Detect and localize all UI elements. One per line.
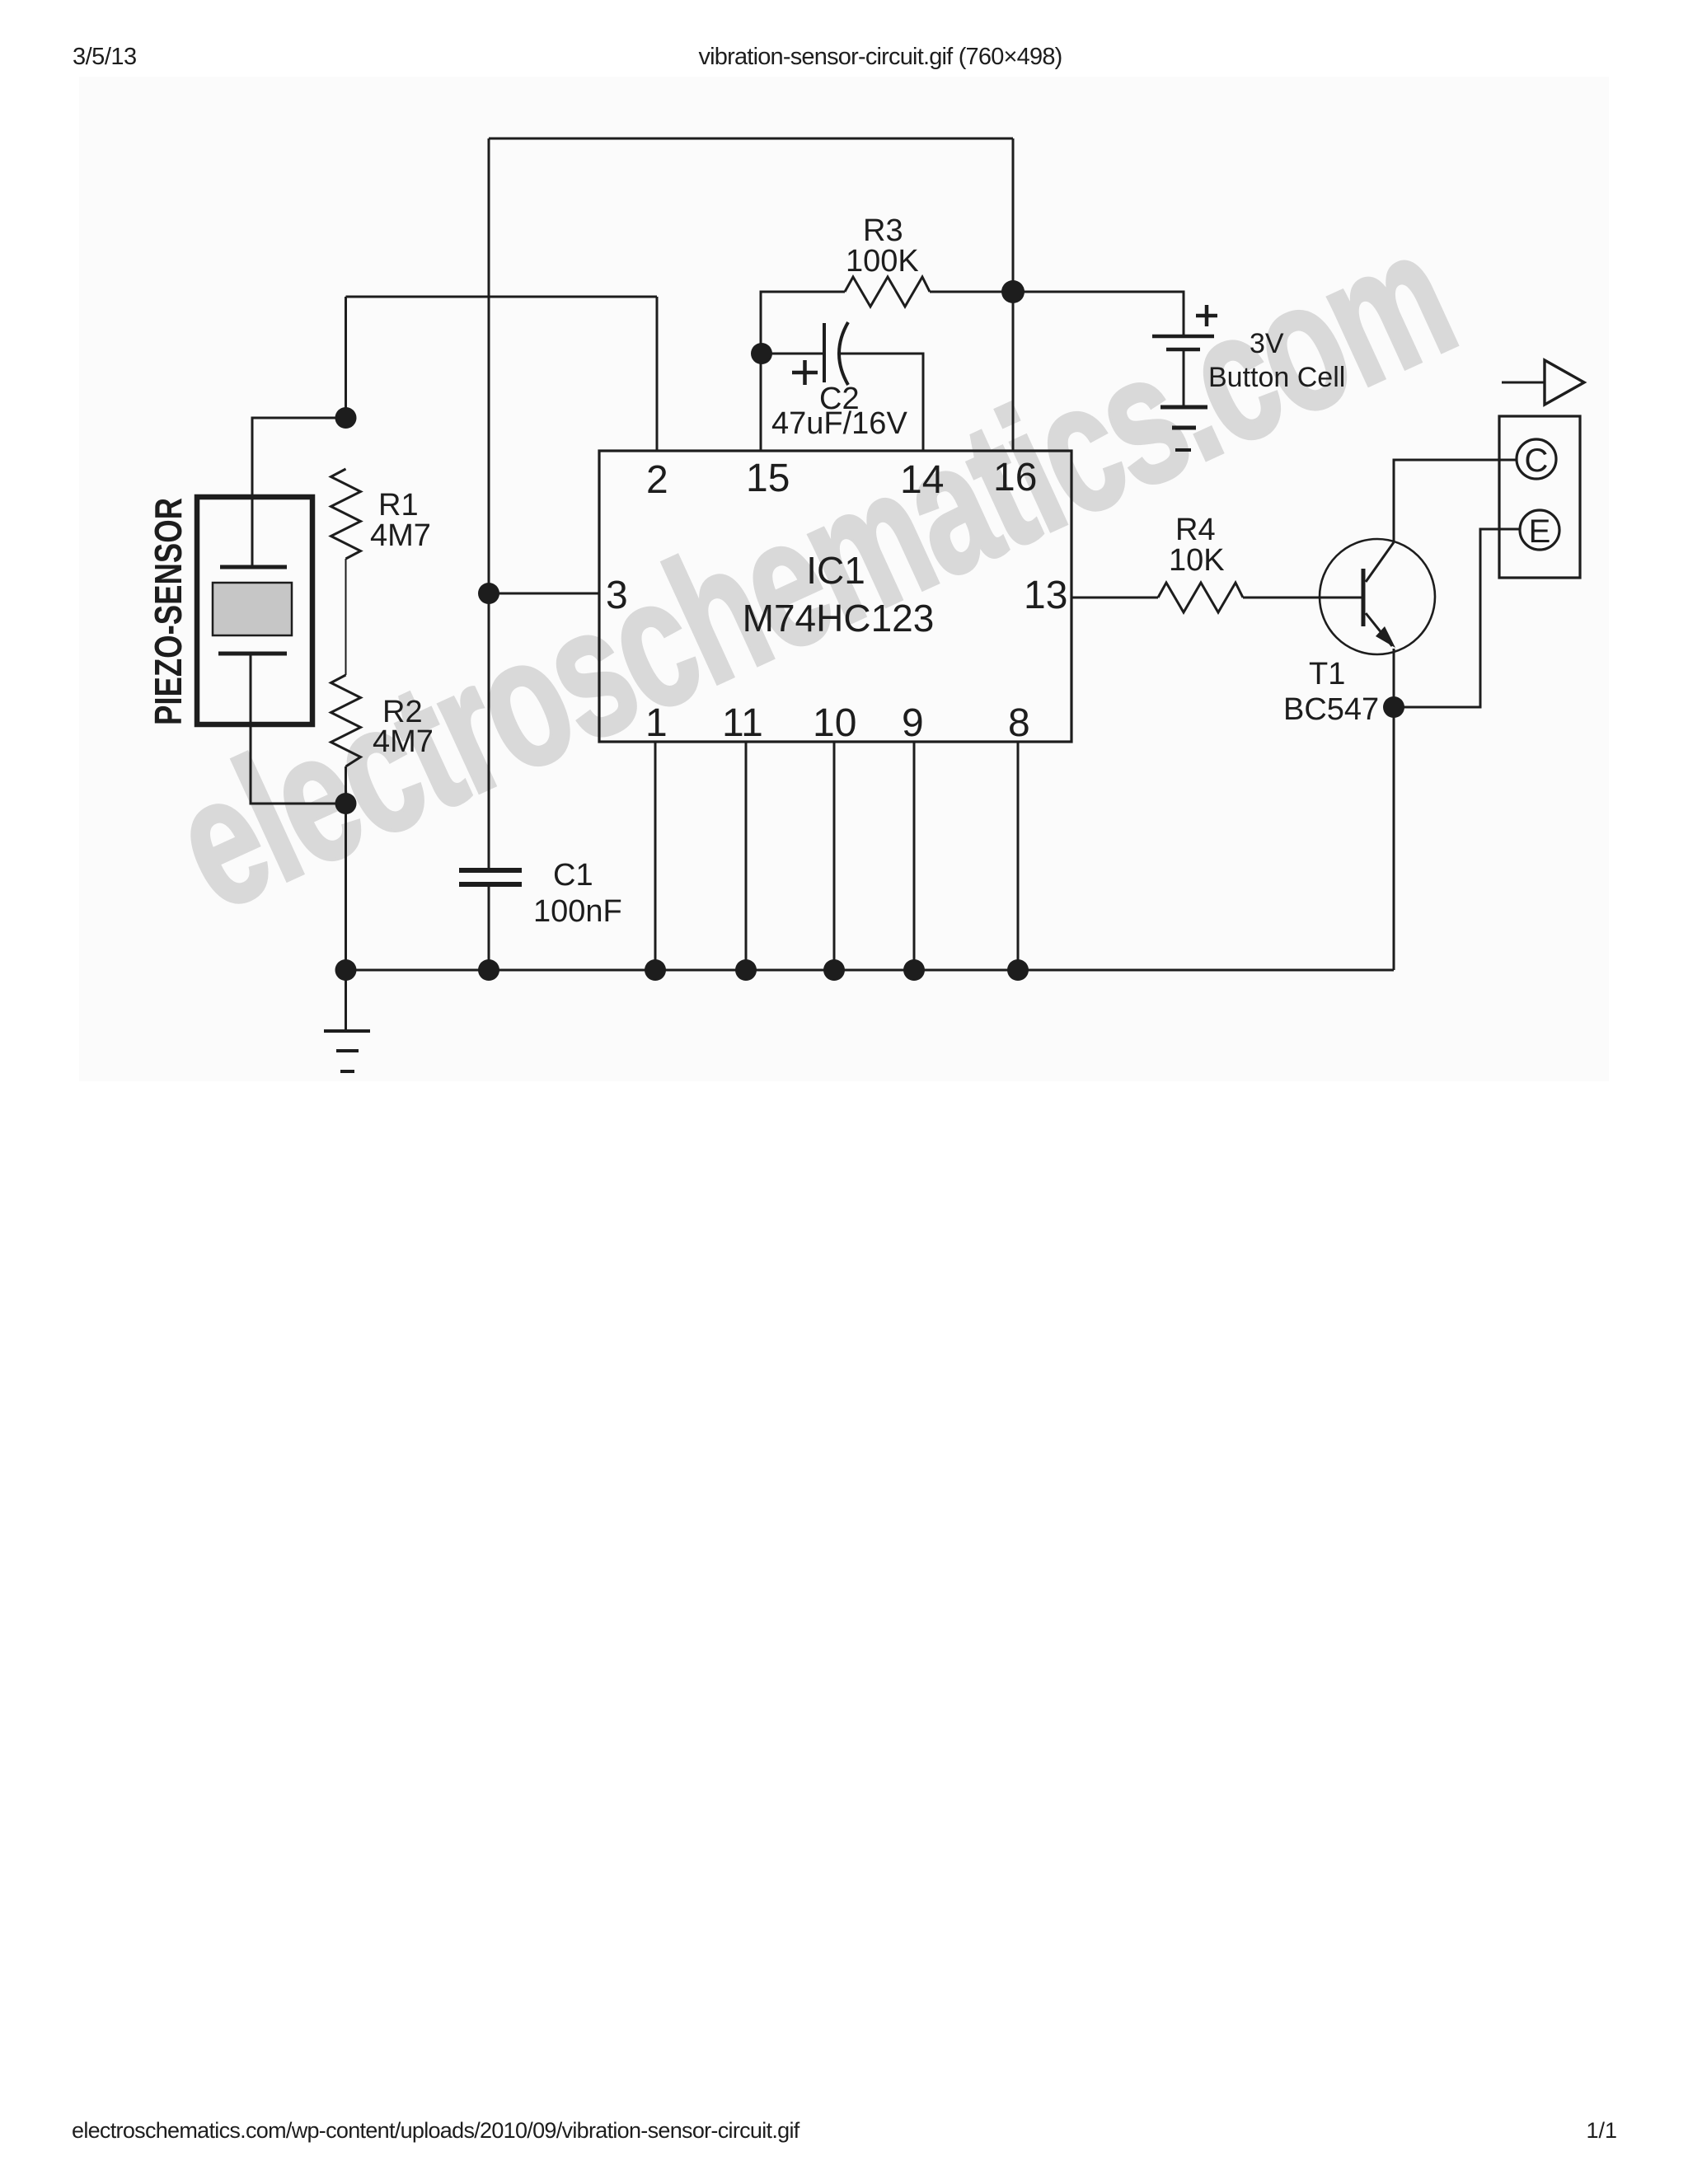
svg-text:3V: 3V xyxy=(1250,328,1284,359)
junction node A (R1 top / piezo top) xyxy=(335,407,357,429)
svg-text:11: 11 xyxy=(722,701,763,745)
wire left vertical from top wire down to C1 xyxy=(488,138,490,868)
junction rail at C1 xyxy=(478,959,499,981)
wire C2 left lead xyxy=(762,353,824,355)
wire left vertical node B to rail xyxy=(345,804,347,970)
wire battery top lead xyxy=(1013,292,1184,335)
svg-text:9: 9 xyxy=(902,701,924,745)
wire emitter down to rail xyxy=(1393,649,1395,970)
svg-text:10K: 10K xyxy=(1169,543,1225,578)
svg-text:BC547: BC547 xyxy=(1283,692,1379,727)
wire R4 to transistor base xyxy=(1243,597,1363,599)
junction rail pin 8 xyxy=(1007,959,1029,981)
capacitor C2 xyxy=(823,323,826,382)
svg-text:E: E xyxy=(1529,513,1551,550)
arrow symbol xyxy=(1545,360,1584,405)
wire emitter node to E terminal xyxy=(1394,529,1521,707)
wire node A to piezo top xyxy=(252,418,346,567)
svg-text:C1: C1 xyxy=(553,858,593,893)
svg-text:1/1: 1/1 xyxy=(1586,2118,1617,2143)
svg-text:4M7: 4M7 xyxy=(370,518,431,553)
wire pin 11 riser xyxy=(745,742,748,970)
junction rail at left vertical xyxy=(335,959,357,981)
piezo sensor box xyxy=(197,497,312,724)
svg-text:IC1: IC1 xyxy=(806,549,865,592)
junction rail pin 9 xyxy=(903,959,925,981)
IC U1 box xyxy=(599,451,1071,742)
ground rail xyxy=(346,969,1395,972)
wire top horizontal xyxy=(489,138,1013,140)
wire piezo bottom to node B xyxy=(251,654,346,804)
svg-text:15: 15 xyxy=(746,457,790,500)
junction node pin3 xyxy=(478,583,499,604)
svg-text:R3: R3 xyxy=(863,213,903,248)
svg-text:3: 3 xyxy=(606,574,628,617)
terminal E xyxy=(1520,510,1559,550)
svg-text:T1: T1 xyxy=(1309,657,1345,691)
svg-text:4M7: 4M7 xyxy=(373,724,434,759)
terminal C xyxy=(1517,439,1556,479)
piezo crystal gray slab xyxy=(213,583,292,635)
wire ground stub xyxy=(345,970,347,1031)
svg-text:electroschematics.com/wp-conte: electroschematics.com/wp-content/uploads… xyxy=(72,2118,800,2143)
resistor R3 xyxy=(845,277,930,307)
watermark electroschematics.com xyxy=(147,191,1479,949)
svg-text:vibration-sensor-circuit.gif (: vibration-sensor-circuit.gif (760×498) xyxy=(698,44,1062,70)
resistor R1 xyxy=(331,469,361,559)
wire pin 13 to R4 xyxy=(1071,597,1158,599)
svg-text:16: 16 xyxy=(993,456,1037,499)
junction rail pin 11 xyxy=(735,959,757,981)
svg-text:Button Cell: Button Cell xyxy=(1208,362,1345,393)
wire collector up and to C terminal xyxy=(1394,460,1517,542)
C2 plus sign xyxy=(792,360,818,385)
svg-text:8: 8 xyxy=(1008,701,1030,745)
svg-text:100nF: 100nF xyxy=(533,894,622,929)
transistor Q1 BC547 xyxy=(1320,539,1435,654)
svg-text:3/5/13: 3/5/13 xyxy=(73,44,137,70)
wire R3 right to node C xyxy=(930,291,1013,293)
battery B1 3V button cell xyxy=(1152,305,1217,450)
svg-text:47uF/16V: 47uF/16V xyxy=(771,406,907,441)
wire C2 right lead to pin 14 riser xyxy=(837,354,923,451)
emitter arrow xyxy=(1376,626,1395,648)
wire pin 16 riser through node C xyxy=(1012,138,1015,451)
svg-text:R4: R4 xyxy=(1175,513,1216,547)
wire arrow lead xyxy=(1502,382,1545,384)
svg-text:13: 13 xyxy=(1024,574,1067,617)
wire pin 8 riser xyxy=(1017,742,1020,970)
junction rail pin 1 xyxy=(645,959,666,981)
wire pin 10 riser xyxy=(833,742,836,970)
svg-text:PIEZO-SENSOR: PIEZO-SENSOR xyxy=(147,498,190,725)
svg-text:R1: R1 xyxy=(378,488,419,523)
wire pin3 to IC xyxy=(489,593,599,595)
junction node B (R2 bottom / piezo bottom) xyxy=(335,793,357,814)
resistor R2 xyxy=(331,675,361,766)
junction node C2 left xyxy=(751,343,772,364)
gif image background area xyxy=(79,77,1609,1081)
junction node C (R3 right / battery / pin 16) xyxy=(1001,280,1025,303)
svg-text:M74HC123: M74HC123 xyxy=(743,597,935,640)
wire horizontal R1-top to pin 2 xyxy=(346,296,658,298)
resistor R4 xyxy=(1158,583,1243,612)
output connector box xyxy=(1499,416,1580,578)
wire C1 bottom to ground rail xyxy=(488,884,490,970)
wire pin 2 riser xyxy=(656,297,659,451)
wire R3 left corner / pin 15 riser xyxy=(761,292,845,451)
svg-text:14: 14 xyxy=(900,458,944,502)
junction emitter node xyxy=(1383,696,1404,718)
piezo top plate xyxy=(220,565,287,569)
svg-text:C: C xyxy=(1525,443,1549,479)
wire R1 top corner down to node A xyxy=(345,297,347,418)
ground symbol xyxy=(324,1031,370,1071)
svg-text:2: 2 xyxy=(646,458,668,502)
junction rail pin 10 xyxy=(823,959,845,981)
svg-text:1: 1 xyxy=(645,701,668,745)
wire pin 1 riser xyxy=(654,742,657,970)
svg-text:10: 10 xyxy=(813,701,856,745)
piezo bottom plate xyxy=(218,652,287,656)
wire pin 9 riser xyxy=(913,742,916,970)
capacitor C1 xyxy=(459,870,522,884)
wire R2 bottom to node B xyxy=(345,766,347,804)
svg-text:100K: 100K xyxy=(846,244,919,279)
wire R1 bottom to R2 top xyxy=(345,559,347,675)
